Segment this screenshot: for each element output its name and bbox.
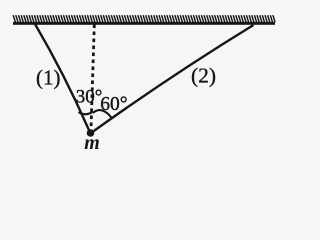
svg-text:30°: 30° [76, 86, 103, 107]
svg-text:(2): (2) [191, 63, 216, 87]
svg-text:m: m [84, 132, 100, 154]
string (2) [91, 25, 254, 133]
mass dot [87, 129, 95, 137]
60-degree arc [93, 110, 112, 118]
string (1) [35, 24, 90, 133]
ceiling hatching [13, 15, 275, 22]
svg-text:(1): (1) [36, 65, 61, 89]
svg-text:60°: 60° [100, 94, 127, 115]
30-degree arc [79, 112, 93, 114]
dashed vertical line [91, 25, 94, 130]
ceiling line [13, 22, 275, 25]
